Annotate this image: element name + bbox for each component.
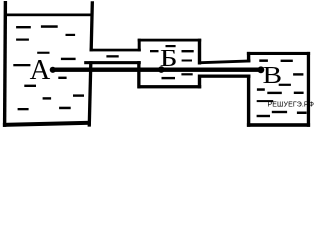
vessel A right wall upper bbox=[90, 1, 95, 51]
vessel A bottom wall bbox=[3, 121, 91, 127]
vessel A water line bbox=[7, 14, 91, 17]
vessel V bottom wall bbox=[247, 123, 310, 127]
vessel V top wall bbox=[247, 52, 310, 55]
thick line A-B-V bbox=[52, 68, 262, 72]
svg-text:А: А bbox=[30, 55, 51, 86]
vessel B(mid) right wall lower bbox=[198, 75, 201, 89]
vessel B(mid) left wall upper bbox=[138, 39, 141, 52]
tube B-V bottom wall bbox=[201, 75, 250, 78]
vessel V left wall lower bbox=[247, 75, 250, 127]
vessel B(mid) left wall lower bbox=[137, 61, 140, 88]
water dashes vessel B(mid) bbox=[150, 50, 159, 52]
tube B-V top wall bbox=[201, 60, 250, 65]
vessel A right wall lower bbox=[88, 61, 93, 126]
svg-text:Б: Б bbox=[160, 45, 178, 72]
vessel A left wall bbox=[3, 1, 7, 127]
water dashes vessel A bbox=[16, 26, 31, 28]
tube A-B bottom wall bbox=[84, 61, 141, 64]
svg-text:РЕШУЕГЭ.РФ: РЕШУЕГЭ.РФ bbox=[268, 102, 315, 109]
vessel B(mid) right wall upper bbox=[198, 39, 201, 65]
tube A-B top wall bbox=[90, 49, 141, 52]
water dash inside tube A-B bbox=[106, 55, 118, 57]
vessel B(mid) bottom wall bbox=[138, 85, 202, 88]
dot V bbox=[258, 66, 265, 73]
dot A bbox=[50, 67, 56, 73]
vessel B(mid) top wall bbox=[138, 39, 202, 42]
vessel V right wall bbox=[307, 52, 310, 127]
water dashes vessel V bbox=[259, 59, 268, 62]
dot B(mid) bbox=[158, 66, 165, 73]
vessel V left wall upper bbox=[247, 52, 250, 62]
